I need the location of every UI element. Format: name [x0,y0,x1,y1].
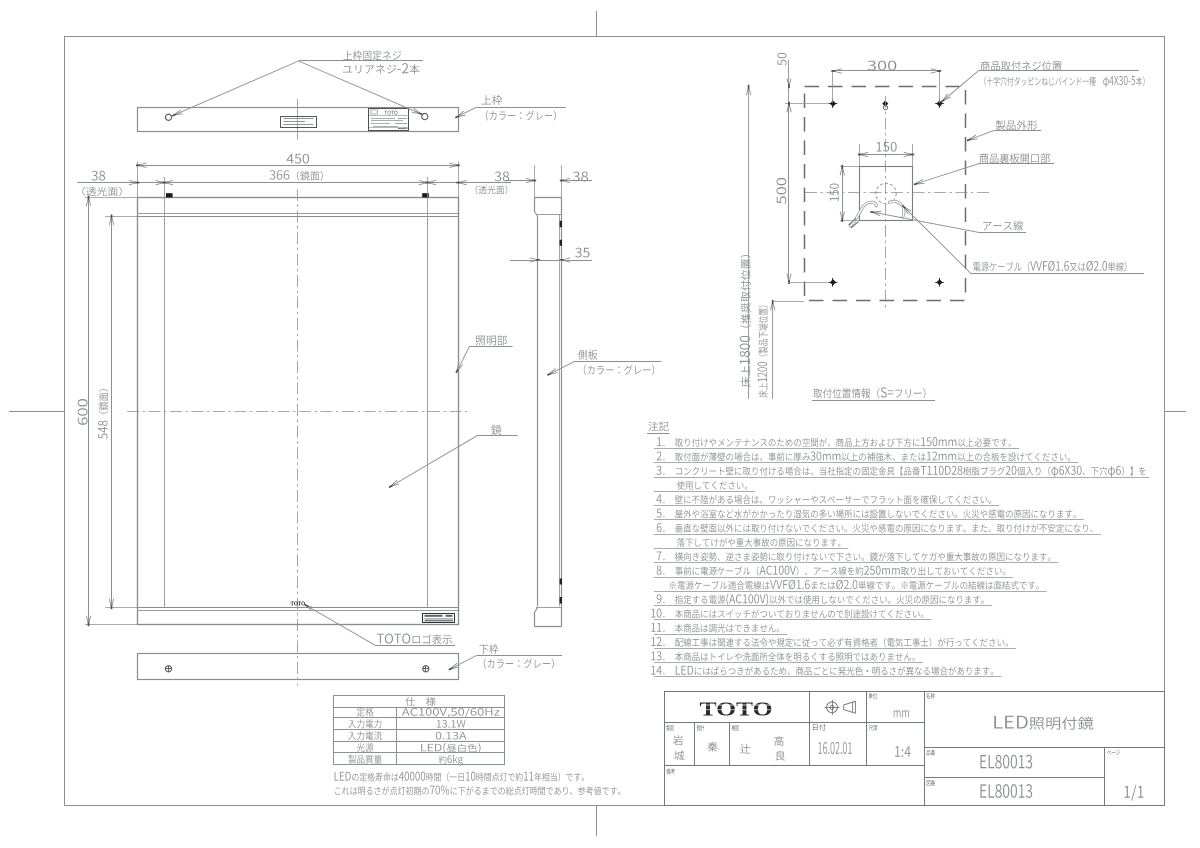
svg-text:TOTO: TOTO [291,602,306,608]
svg-text:TOTO: TOTO [700,698,773,720]
